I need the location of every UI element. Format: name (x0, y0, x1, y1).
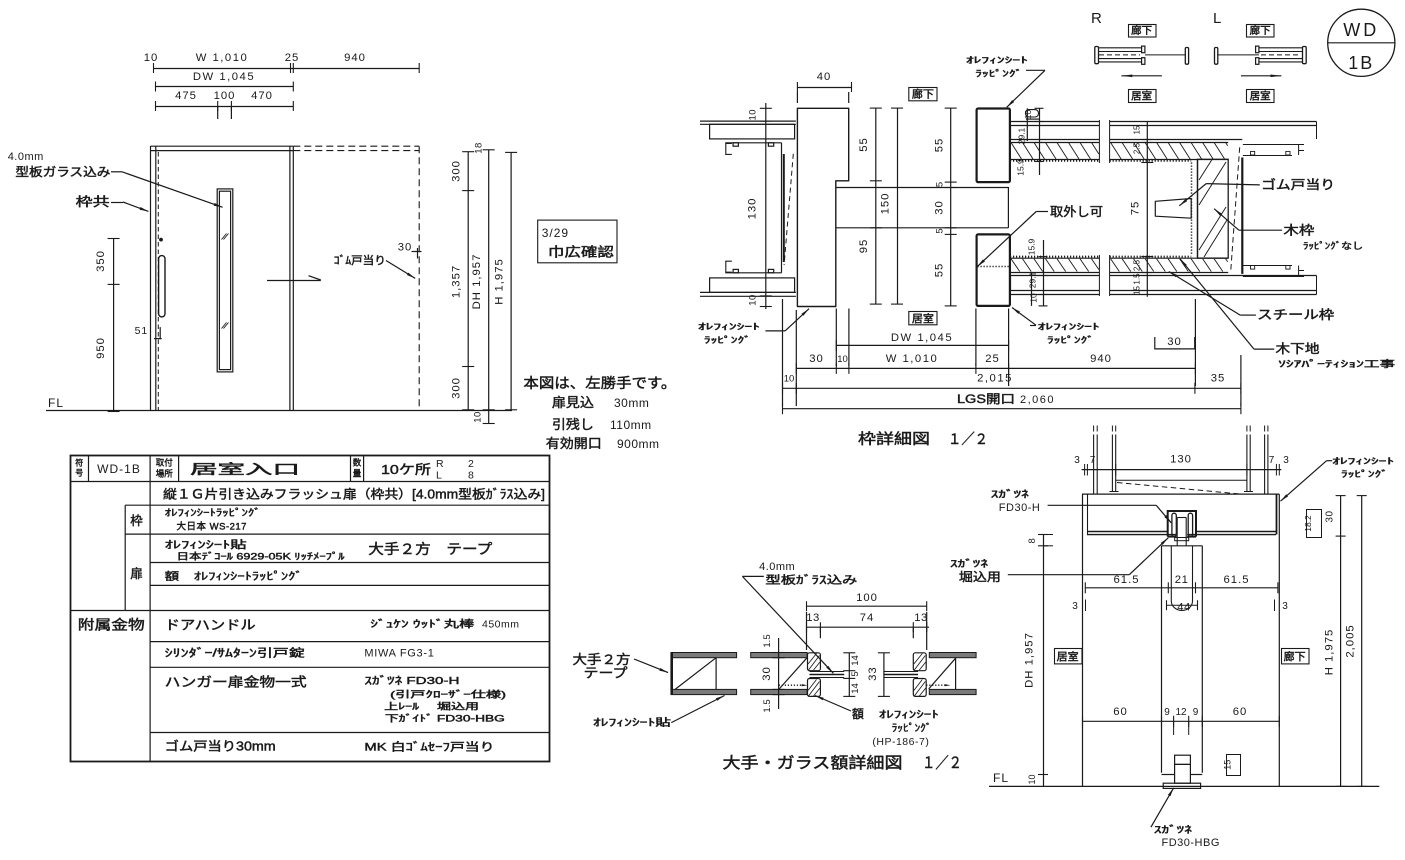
svg-text:3: 3 (1283, 455, 1289, 466)
runner end cap stadium top (1026, 110, 1039, 117)
screw dotted middle (779, 684, 805, 686)
plan extension lines (795, 310, 797, 406)
svg-text:型板ｶﾞﾗｽ込み: 型板ｶﾞﾗｽ込み (765, 573, 857, 587)
svg-text:取付: 取付 (156, 458, 173, 468)
svg-text:1,357: 1,357 (451, 265, 463, 298)
middle piece brace (750, 658, 752, 690)
plan dim row LGS開口 2,060 (782, 408, 1241, 410)
left piece brace (715, 658, 717, 690)
svg-text:ｺﾞﾑ戸当り: ｺﾞﾑ戸当り (334, 253, 386, 267)
svg-text:8: 8 (1027, 538, 1038, 543)
wood backing top channel (1243, 144, 1304, 146)
svg-text:ゴム戸当り30mm: ゴム戸当り30mm (165, 739, 276, 754)
hanger rail C-profile (1168, 511, 1196, 537)
svg-text:大日本 WS-217: 大日本 WS-217 (177, 521, 247, 533)
svg-text:61.5: 61.5 (1114, 574, 1140, 586)
door handle slot (159, 256, 165, 317)
L room box (1247, 90, 1275, 103)
svg-text:廊下: 廊下 (1284, 650, 1306, 663)
stud clips top (733, 143, 738, 146)
svg-text:堀込用: 堀込用 (959, 569, 1001, 584)
svg-text:扉見込: 扉見込 (552, 395, 594, 410)
svg-text:8: 8 (468, 470, 474, 482)
inner stud feet (1110, 491, 1119, 493)
pocket outline dashed (293, 145, 419, 147)
svg-text:FD30-H: FD30-H (999, 502, 1041, 514)
svg-text:ｽｶﾞﾂﾈ FD30-H: ｽｶﾞﾂﾈ FD30-H (364, 675, 459, 687)
svg-text:100: 100 (856, 592, 878, 604)
dim 18.2 boxed + 30 right (1307, 510, 1322, 538)
svg-text:1B: 1B (1348, 53, 1374, 73)
dim col 10/130/10 left of wall (765, 103, 767, 309)
svg-text:150: 150 (880, 193, 892, 215)
svg-text:廊下: 廊下 (1250, 24, 1271, 37)
note box 3/29 巾広確認 (538, 220, 617, 263)
svg-text:FD30-HBG: FD30-HBG (1162, 837, 1220, 849)
right piece brace (955, 658, 957, 690)
svg-text:10: 10 (1023, 110, 1033, 120)
table outer frame (71, 456, 550, 762)
svg-text:ｵﾚﾌｨﾝｼｰﾄ貼: ｵﾚﾌｨﾝｼｰﾄ貼 (165, 538, 248, 551)
svg-text:有効開口: 有効開口 (546, 436, 602, 451)
door leading edge (right stile) (289, 146, 291, 410)
svg-text:4.0mm: 4.0mm (759, 561, 795, 573)
svg-text:L: L (1213, 10, 1222, 27)
dim line 2,005 (1361, 496, 1363, 787)
boxed dim 15 (1227, 755, 1241, 776)
svg-text:W 1,010: W 1,010 (886, 353, 939, 365)
svg-text:5: 5 (935, 182, 946, 187)
FL line section (989, 785, 1379, 787)
svg-text:額 ｵﾚﾌｨﾝｼｰﾄﾗｯﾋﾟﾝｸﾞ: 額 ｵﾚﾌｨﾝｼｰﾄﾗｯﾋﾟﾝｸﾞ (165, 570, 303, 583)
L pocket symbol (1215, 48, 1218, 65)
svg-text:(引戸ｸﾛｰｻﾞｰ仕様): (引戸ｸﾛｰｻﾞｰ仕様) (390, 689, 506, 700)
svg-text:21: 21 (1175, 574, 1189, 586)
svg-text:ｵﾚﾌｨﾝｼｰﾄ貼: ｵﾚﾌｨﾝｼｰﾄ貼 (593, 716, 671, 729)
hidden edge dashed in wall (784, 154, 793, 265)
svg-text:130: 130 (1170, 454, 1192, 466)
left piece skins (671, 653, 736, 658)
middle piece skins (751, 653, 807, 658)
svg-text:51: 51 (135, 325, 149, 337)
svg-text:居室入口: 居室入口 (190, 461, 300, 477)
svg-text:3: 3 (1074, 455, 1080, 466)
svg-text:額: 額 (852, 707, 864, 721)
svg-text:L: L (436, 470, 442, 482)
rubber door stop trapezoid (1155, 199, 1191, 219)
right piece skins (929, 653, 976, 658)
svg-text:55: 55 (934, 138, 946, 153)
svg-text:10ケ所: 10ケ所 (381, 462, 431, 477)
svg-text:15.9: 15.9 (1016, 159, 1026, 176)
svg-text:日本ﾃﾞｺｰﾙ 6929-05K ﾘｯﾁﾒｰﾌﾟﾙ: 日本ﾃﾞｺｰﾙ 6929-05K ﾘｯﾁﾒｰﾌﾟﾙ (177, 551, 346, 562)
door leaf bottom edge (1162, 774, 1175, 776)
svg-text:テープ: テープ (584, 666, 628, 681)
dim line top: 10 / W 1,010 / 25 / 940 (154, 68, 420, 70)
dim 30 pocket mouth (1155, 348, 1195, 350)
svg-text:１／２: １／２ (948, 431, 988, 448)
svg-text:60: 60 (1113, 706, 1128, 718)
stud clips bottom (733, 269, 738, 272)
svg-text:DW 1,045: DW 1,045 (891, 332, 953, 344)
svg-text:2.5: 2.5 (1133, 142, 1142, 154)
svg-text:2,015: 2,015 (977, 373, 1013, 385)
svg-text:25: 25 (985, 353, 1000, 365)
svg-text:4.0mm: 4.0mm (8, 151, 44, 163)
glass pane lines (4mm) (810, 671, 845, 673)
svg-text:15: 15 (1223, 760, 1233, 770)
svg-text:950: 950 (95, 337, 107, 359)
bottom wall board cap (1010, 276, 1012, 291)
svg-text:2,060: 2,060 (1020, 394, 1055, 406)
door leaf (section) (1162, 545, 1203, 547)
drawing mark circle WD/1B (1328, 9, 1395, 76)
svg-text:3/29: 3/29 (542, 226, 569, 240)
dim line DW 1,045 (155, 86, 293, 88)
svg-text:W 1,010: W 1,010 (196, 52, 249, 64)
svg-text:470: 470 (251, 90, 273, 102)
svg-text:10: 10 (1027, 774, 1037, 784)
door leaf bar in plan (836, 187, 1008, 189)
svg-text:LGS開口: LGS開口 (957, 392, 1015, 406)
svg-text:55: 55 (858, 137, 870, 152)
svg-text:3: 3 (1282, 601, 1288, 612)
top rail line (1116, 479, 1247, 481)
table horizontal lines (70, 481, 549, 483)
screw dotted right (926, 684, 947, 686)
top pocket lining dotted (1010, 160, 1099, 162)
svg-text:7: 7 (1090, 455, 1096, 466)
glass frame blocks (middle) (808, 653, 821, 671)
svg-text:枠共: 枠共 (76, 195, 110, 209)
svg-text:2.5: 2.5 (1133, 259, 1142, 271)
dim 350/950 left (113, 238, 115, 412)
steel pocket frame - channel (1197, 159, 1199, 258)
left wall corridor-side boards (700, 120, 796, 122)
svg-text:DW 1,045: DW 1,045 (193, 71, 255, 83)
wrap dashed diagonal (head) (1117, 483, 1240, 495)
top hatched band (1010, 142, 1099, 144)
wood frame hatched block 木枠 (1198, 159, 1229, 258)
head jamb box (1082, 493, 1279, 495)
svg-text:18: 18 (474, 142, 485, 154)
plan dim row DW 1,045 (836, 344, 1008, 346)
svg-text:１／２: １／２ (922, 755, 962, 772)
svg-text:数: 数 (353, 458, 362, 468)
table vertical lines (88, 455, 90, 482)
svg-text:ｵﾚﾌｨﾝｼｰﾄ: ｵﾚﾌｨﾝｼｰﾄ (879, 709, 939, 721)
svg-text:ｵﾚﾌｨﾝｼｰﾄ: ｵﾚﾌｨﾝｼｰﾄ (1038, 322, 1100, 332)
svg-text:30: 30 (934, 200, 946, 215)
svg-text:大手・ガラス額詳細図: 大手・ガラス額詳細図 (723, 754, 903, 772)
svg-text:40: 40 (817, 71, 832, 83)
svg-text:14: 14 (850, 683, 861, 694)
svg-text:30mm: 30mm (614, 396, 649, 410)
svg-text:100: 100 (214, 90, 236, 102)
svg-text:下ｶﾞｲﾄﾞ FD30-HBG: 下ｶﾞｲﾄﾞ FD30-HBG (385, 714, 505, 724)
head jamb bottom (1087, 531, 1168, 533)
dim 130 head (1082, 469, 1282, 471)
dim col 14/5/14 (848, 653, 850, 697)
svg-text:30: 30 (1325, 510, 1336, 522)
label 居室 box plan bottom (909, 312, 937, 325)
svg-text:130: 130 (747, 198, 759, 220)
svg-text:12: 12 (1175, 707, 1187, 718)
dim line DH 1,957 (section) (1043, 535, 1045, 787)
dim row 3/44/3 (1166, 604, 1197, 606)
svg-text:R: R (436, 458, 444, 470)
frame tongue thick line (783, 154, 785, 262)
hanger rollers (1172, 513, 1176, 536)
wood backing bottom channel (1243, 276, 1304, 278)
plan dim row 10/2,015/35 (782, 387, 1241, 389)
LGS stud top-left (726, 143, 732, 154)
svg-text:本図は、左勝手です。: 本図は、左勝手です。 (523, 375, 676, 391)
meeting stile lower block (977, 234, 1010, 306)
R room box (1129, 90, 1157, 103)
opening direction arrow (267, 280, 321, 282)
wood backing thick edge (1241, 158, 1243, 274)
svg-text:900mm: 900mm (617, 437, 660, 451)
svg-text:量: 量 (353, 469, 362, 479)
svg-text:附属金物: 附属金物 (78, 618, 145, 633)
svg-text:木下地: 木下地 (1276, 342, 1321, 356)
svg-text:30: 30 (809, 353, 824, 365)
svg-text:300: 300 (451, 160, 463, 182)
svg-text:スチール枠: スチール枠 (1257, 308, 1335, 322)
door frame left jamb (elevation) (150, 146, 152, 410)
L arrow (1241, 75, 1282, 77)
svg-text:10: 10 (473, 411, 484, 423)
door top rails (151, 145, 294, 147)
glazing marks (222, 234, 227, 240)
meeting stile upper block (977, 109, 1010, 183)
extension ticks glass slot (217, 106, 219, 119)
svg-text:ﾗｯﾋﾟﾝｸﾞ: ﾗｯﾋﾟﾝｸﾞ (892, 723, 932, 735)
cylinder dot (159, 238, 163, 242)
svg-text:居室: 居室 (1250, 90, 1271, 103)
svg-text:ｽｶﾞﾂﾈ: ｽｶﾞﾂﾈ (991, 490, 1029, 501)
right dims 300/1357/300 (467, 152, 469, 410)
svg-text:WD: WD (1343, 20, 1379, 40)
dim 40 above jamb (797, 87, 851, 89)
glass slot (4mm glass vision panel) (217, 189, 233, 372)
svg-text:ｿｼｱﾊﾟｰﾃｨｼｮﾝ工事: ｿｼｱﾊﾟｰﾃｨｼｮﾝ工事 (1278, 358, 1395, 369)
svg-text:ﾗｯﾋﾟﾝｸﾞなし: ﾗｯﾋﾟﾝｸﾞなし (1303, 241, 1363, 251)
svg-text:縦１Ｇ片引き込みフラッシュ扉（枠共）[4.0mm型板ｶﾞﾗｽ: 縦１Ｇ片引き込みフラッシュ扉（枠共）[4.0mm型板ｶﾞﾗｽ込み] (163, 488, 545, 502)
svg-text:FL: FL (993, 771, 1009, 785)
steel pocket frame - dotted edge (1191, 163, 1193, 256)
svg-text:MIWA FG3-1: MIWA FG3-1 (364, 648, 434, 660)
left piece edge cap (670, 652, 673, 695)
svg-text:枠詳細図: 枠詳細図 (858, 431, 930, 448)
dim col 1.5/30/1.5 (778, 638, 780, 709)
svg-text:300: 300 (451, 377, 463, 399)
svg-text:29.1: 29.1 (1017, 127, 1027, 144)
mortise slot for hanger (1170, 546, 1172, 601)
plan dim row 30/10/W1,010/25/940 (796, 367, 1195, 369)
svg-text:ｵﾚﾌｨﾝｼｰﾄﾗｯﾋﾟﾝｸﾞ: ｵﾚﾌｨﾝｼｰﾄﾗｯﾋﾟﾝｸﾞ (165, 508, 261, 519)
svg-text:居室: 居室 (1057, 650, 1079, 663)
svg-text:75: 75 (1130, 201, 1142, 216)
floor guide FD30-HBG (1175, 755, 1191, 764)
svg-text:大手２方 テープ: 大手２方 テープ (368, 541, 492, 557)
svg-text:DH 1,957: DH 1,957 (1024, 632, 1036, 688)
pocket walls - corridor side (top) (1010, 121, 1099, 123)
label 廊下 box plan top (909, 88, 937, 101)
svg-text:ﾗｯﾋﾟﾝｸﾞ: ﾗｯﾋﾟﾝｸﾞ (1341, 469, 1388, 479)
svg-text:ﾗｯﾋﾟﾝｸﾞ: ﾗｯﾋﾟﾝｸﾞ (704, 335, 751, 345)
svg-text:引残し: 引残し (552, 417, 594, 432)
meeting-stile dim col 55/5/30/5/55 (950, 108, 952, 306)
dim 100 (807, 605, 927, 607)
studs above header (1093, 435, 1095, 495)
svg-text:ｼﾘﾝﾀﾞｰ/ｻﾑﾀｰﾝ引戸錠: ｼﾘﾝﾀﾞｰ/ｻﾑﾀｰﾝ引戸錠 (165, 646, 305, 660)
svg-text:350: 350 (95, 250, 107, 272)
svg-text:9: 9 (1193, 707, 1199, 718)
dim col 33 (883, 653, 885, 697)
dim col 75 pocket width (1146, 122, 1148, 297)
hanger bolt (1176, 518, 1178, 547)
svg-text:2,005: 2,005 (1345, 624, 1357, 657)
svg-text:18.2: 18.2 (1303, 515, 1313, 532)
svg-text:10: 10 (837, 354, 848, 365)
svg-text:ドアハンドル: ドアハンドル (165, 618, 256, 633)
strike jamb frame polygon (797, 108, 848, 306)
svg-text:1.5: 1.5 (1133, 273, 1142, 285)
svg-text:25: 25 (285, 52, 300, 64)
svg-text:上ﾚｰﾙ 堀込用: 上ﾚｰﾙ 堀込用 (384, 702, 479, 712)
svg-text:号: 号 (75, 469, 83, 478)
svg-text:450mm: 450mm (482, 619, 520, 631)
svg-text:ｵﾚﾌｨﾝｼｰﾄ: ｵﾚﾌｨﾝｼｰﾄ (698, 322, 760, 332)
svg-text:H 1,975: H 1,975 (1324, 629, 1336, 676)
svg-text:5: 5 (850, 671, 861, 676)
svg-text:475: 475 (175, 90, 197, 102)
svg-text:取外し可: 取外し可 (1050, 205, 1103, 219)
svg-text:10: 10 (748, 294, 759, 306)
svg-text:44: 44 (1177, 602, 1191, 614)
dim col 150 (897, 108, 899, 304)
LGS stud bottom-left (726, 261, 732, 272)
svg-text:10: 10 (144, 52, 159, 64)
svg-text:1.5: 1.5 (762, 634, 773, 647)
svg-text:場所: 場所 (156, 469, 173, 479)
R arrow (1121, 75, 1162, 77)
svg-text:13: 13 (806, 612, 820, 624)
svg-text:30: 30 (1167, 336, 1182, 348)
dim row 61.5/21/61.5 (1085, 587, 1278, 589)
svg-text:10: 10 (748, 109, 759, 121)
dim col 55/95 (875, 108, 877, 304)
dim cluster 15.9/29.1/10 lower (1031, 272, 1033, 306)
dim line DH 1,957 (488, 150, 490, 423)
svg-text:ｽｶﾞﾂﾈ: ｽｶﾞﾂﾈ (950, 559, 988, 570)
svg-text:ｽｶﾞﾂﾈ: ｽｶﾞﾂﾈ (1154, 825, 1192, 836)
svg-text:FL: FL (48, 396, 64, 410)
svg-text:R: R (1091, 10, 1103, 27)
svg-text:符: 符 (75, 458, 83, 468)
svg-text:H 1,975: H 1,975 (494, 258, 506, 305)
svg-text:ｵﾚﾌｨﾝｼｰﾄ: ｵﾚﾌｨﾝｼｰﾄ (966, 55, 1028, 65)
svg-text:55: 55 (934, 263, 946, 278)
svg-text:巾広確認: 巾広確認 (548, 245, 614, 260)
svg-text:110mm: 110mm (610, 418, 652, 432)
svg-text:WD-1B: WD-1B (97, 462, 141, 476)
top wall gypsum board edge caps (1010, 125, 1012, 139)
svg-text:29.1: 29.1 (1028, 271, 1038, 288)
bottom hatched band (1010, 257, 1099, 259)
svg-text:廊下: 廊下 (1131, 24, 1152, 37)
R pocket symbol (1099, 47, 1142, 49)
svg-text:(HP-186-7): (HP-186-7) (872, 736, 929, 748)
svg-text:木枠: 木枠 (1283, 224, 1315, 238)
removable strip dotted (978, 266, 1010, 268)
dim cluster 10/29.1/15.9 upper (1026, 108, 1028, 141)
svg-text:15: 15 (1133, 286, 1142, 295)
svg-text:居室: 居室 (912, 312, 934, 325)
svg-text:3: 3 (1072, 601, 1078, 612)
svg-text:廊下: 廊下 (912, 88, 934, 101)
svg-text:14: 14 (850, 655, 861, 666)
svg-text:15.9: 15.9 (1027, 238, 1037, 255)
svg-text:2: 2 (468, 458, 474, 470)
stud web vertical (781, 143, 783, 273)
svg-text:居室: 居室 (1131, 90, 1152, 103)
svg-text:ハンガー扉金物一式: ハンガー扉金物一式 (165, 675, 307, 690)
L corridor box (1247, 25, 1275, 38)
svg-text:DH 1,957: DH 1,957 (471, 254, 483, 310)
svg-text:10: 10 (784, 374, 795, 385)
svg-text:ゴム戸当り: ゴム戸当り (1261, 177, 1335, 192)
svg-text:13: 13 (914, 612, 928, 624)
svg-text:7: 7 (1269, 455, 1275, 466)
svg-text:30: 30 (398, 242, 413, 254)
svg-text:10: 10 (1029, 293, 1039, 303)
wall right end caps (1316, 122, 1318, 140)
FL line under elevation (46, 410, 512, 412)
svg-text:940: 940 (344, 52, 366, 64)
dim line H 1,975 (510, 152, 512, 409)
wrapping boundary dashed (1231, 147, 1240, 270)
dim line 475/100/470 (155, 106, 293, 108)
stud break marks top (1093, 426, 1095, 432)
wall break marks (1098, 120, 1100, 163)
svg-text:9: 9 (1164, 707, 1170, 718)
left wall room-side boards (700, 291, 796, 293)
bottom boards and faces (1010, 275, 1099, 277)
svg-text:型板ガラス込み: 型板ガラス込み (15, 165, 110, 179)
R corridor box (1129, 25, 1157, 38)
svg-text:ｼﾞｭｹﾝ ｳｯﾄﾞ丸棒: ｼﾞｭｹﾝ ｳｯﾄﾞ丸棒 (370, 618, 474, 631)
svg-text:940: 940 (1090, 353, 1112, 365)
svg-text:MK 白ｺﾞﾑｾｰﾌ戸当り: MK 白ｺﾞﾑｾｰﾌ戸当り (364, 740, 494, 754)
svg-text:61.5: 61.5 (1224, 574, 1250, 586)
svg-text:74: 74 (860, 612, 875, 624)
dim 8 (head clearance) (1043, 535, 1045, 546)
svg-text:1.5: 1.5 (762, 699, 773, 712)
glass frame blocks (right) (913, 653, 926, 671)
svg-text:35: 35 (1211, 373, 1226, 385)
svg-text:枠: 枠 (130, 514, 143, 528)
labels 居室/廊下 section (1055, 649, 1083, 664)
svg-text:95: 95 (858, 239, 870, 254)
dim row 60/9/12/9/60 (1082, 720, 1279, 722)
svg-text:ﾗｯﾋﾟﾝｸﾞ: ﾗｯﾋﾟﾝｸﾞ (1047, 335, 1094, 345)
dim 13/74/13 (806, 626, 929, 628)
svg-text:5: 5 (935, 228, 946, 233)
dim line H 1,975 (section) (1340, 496, 1342, 787)
